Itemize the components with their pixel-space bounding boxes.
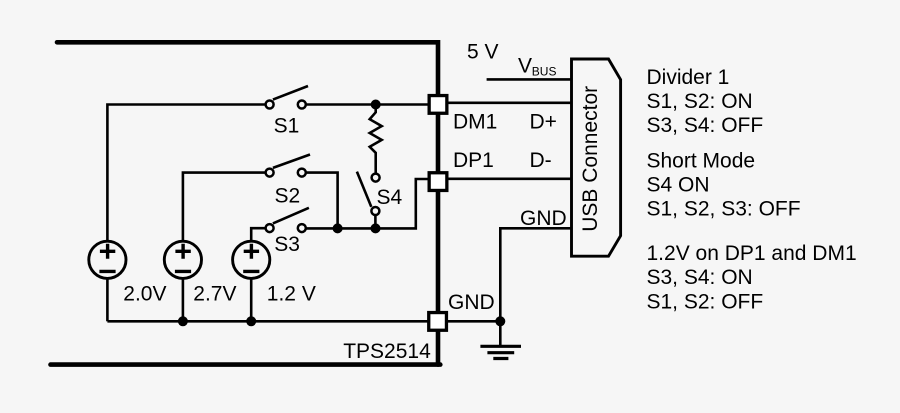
junction dot at S1/resistor node [371, 100, 381, 110]
junction dot at ground node [495, 316, 505, 326]
wire from 2.0V source up and right to S1 [107, 105, 266, 243]
junction dot at S4/rail node [371, 223, 381, 233]
switch S1 arm [273, 86, 308, 100]
pin box GND [429, 313, 447, 331]
D+ wire from DM1 pin to USB connector [444, 102, 572, 105]
svg-text:S4: S4 [377, 186, 403, 209]
junction dot below 1.2V source [246, 316, 256, 326]
svg-text:D-: D- [530, 149, 552, 172]
voltage source V2 2.7V [164, 241, 201, 321]
svg-text:S3: S3 [274, 233, 300, 256]
switch S3 left contact [266, 224, 274, 232]
pin box DP1 [429, 173, 447, 191]
VBUS wire to USB connector [487, 78, 572, 81]
svg-text:DP1: DP1 [453, 149, 494, 172]
svg-text:DM1: DM1 [453, 111, 497, 134]
junction dot below 2.7V source [178, 316, 188, 326]
switch S2 left contact [266, 169, 274, 177]
D- wire from DP1 pin to USB connector [444, 178, 572, 181]
svg-text:S4 ON: S4 ON [647, 174, 710, 197]
svg-text:2.0V: 2.0V [123, 283, 166, 306]
switch S4 top contact [372, 174, 380, 182]
switch S4 arm [357, 172, 371, 207]
voltage source V3 1.2V [233, 241, 270, 321]
svg-text:S3, S4: ON: S3, S4: ON [647, 266, 753, 289]
wire from S3 right contact along rail, up to DP1 pin [305, 179, 432, 228]
svg-text:1.2V on DP1 and DM1: 1.2V on DP1 and DM1 [647, 242, 857, 265]
switch S2 right contact [298, 169, 306, 177]
svg-text:1.2 V: 1.2 V [267, 283, 316, 306]
wire from S1 right contact to DM1 pin [305, 103, 432, 106]
switch S3 arm [273, 208, 309, 224]
junction dot at S2/rail node [333, 223, 343, 233]
TPS2514 block top bus (thick line) and right edge [57, 42, 438, 364]
svg-text:V: V [518, 55, 532, 78]
switch S2 arm [273, 155, 310, 168]
svg-text:S1, S2, S3: OFF: S1, S2, S3: OFF [647, 198, 801, 221]
svg-text:5 V: 5 V [467, 40, 499, 63]
svg-text:TPS2514: TPS2514 [343, 340, 431, 363]
wire ground node down to ground symbol [499, 321, 502, 346]
wire from 1.2V source up to S3 [251, 228, 266, 242]
voltage source V1 2.0V [89, 241, 126, 321]
ground symbol [480, 346, 521, 358]
switch S3 right contact [298, 224, 306, 232]
svg-text:S2: S2 [275, 185, 301, 208]
svg-text:2.7V: 2.7V [193, 283, 236, 306]
svg-text:Divider 1: Divider 1 [647, 66, 730, 89]
svg-text:USB Connector: USB Connector [579, 86, 602, 232]
USB connector body [572, 59, 621, 256]
wire from S2 right contact right then down to node rail [305, 173, 338, 229]
svg-text:S1: S1 [274, 114, 300, 137]
svg-text:BUS: BUS [532, 64, 557, 78]
switch S1 left contact [266, 101, 274, 109]
svg-text:D+: D+ [530, 111, 557, 134]
svg-text:S3, S4: OFF: S3, S4: OFF [647, 114, 764, 137]
svg-text:S1, S2: OFF: S1, S2: OFF [647, 291, 764, 314]
svg-text:Short Mode: Short Mode [647, 150, 756, 173]
wire GND pin to ground node [444, 320, 500, 323]
bottom ground rail from sources to GND pin [107, 320, 432, 323]
TPS2514 block bottom bus (thick line) [51, 362, 441, 367]
svg-text:S1, S2: ON: S1, S2: ON [647, 90, 753, 113]
wire from 2.7V source up and right to S2 [183, 173, 266, 242]
wire from S4 bottom contact to rail [374, 215, 377, 228]
switch S4 bottom contact [371, 207, 379, 215]
svg-text:GND: GND [520, 207, 567, 230]
wire ground node up and right to USB connector GND [500, 228, 571, 321]
resistor R (between S1 node and S4) [370, 105, 382, 174]
switch S1 right contact [298, 101, 306, 109]
svg-text:GND: GND [448, 291, 495, 314]
pin box DM1 [429, 96, 447, 114]
